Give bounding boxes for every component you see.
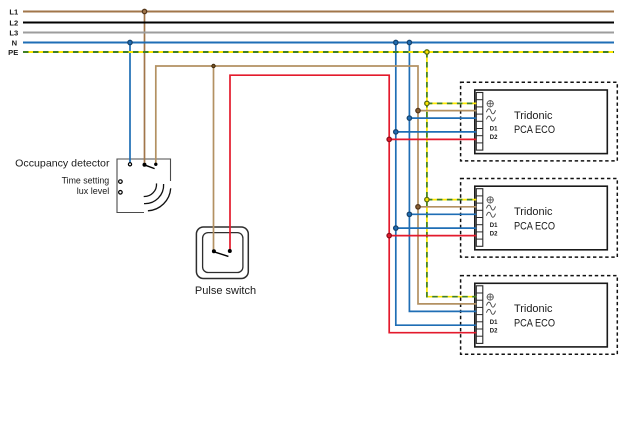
occupancy detector B1 outline: [117, 159, 171, 213]
svg-text:Occupancy detector: Occupancy detector: [15, 157, 110, 169]
occupancy detector terminal L' (switched output): [154, 163, 157, 166]
ballast U2 terminal block: [476, 189, 483, 247]
bus L2 (black): [23, 22, 614, 24]
junction D1 stub U1: [394, 130, 398, 134]
wire PE net green dashes: [427, 52, 476, 297]
wire N drop 2 (to ballast D1 terminals): [396, 43, 477, 326]
ballast U3 AC (~) symbol L terminal: [486, 302, 495, 307]
wire PE stub to ballast U2 (yellow base): [427, 199, 476, 201]
bus N (blue): [23, 42, 614, 44]
wire PE net: drop from PE bus to all ballasts (yellow base): [427, 52, 476, 297]
wire switched-L drop to pulse switch: [213, 66, 215, 251]
wire D1 stub to ballast U1: [396, 131, 477, 133]
svg-text:Tridonic: Tridonic: [514, 206, 553, 218]
svg-text:PCA ECO: PCA ECO: [514, 220, 555, 232]
occupancy detector terminal N (open circle): [128, 163, 131, 166]
ballast U2 body: [475, 186, 608, 250]
ballast U2 AC (~) symbol L terminal: [486, 205, 495, 210]
junction L stub U1: [416, 108, 420, 112]
wire PE stub to ballast U1 (yellow base): [427, 102, 476, 104]
ballast U3 body: [475, 283, 608, 347]
wire PE stub to ballast U2 green dashes: [427, 199, 476, 201]
svg-text:L1: L1: [9, 8, 19, 17]
wire N to occupancy detector: [129, 43, 131, 163]
bus PE (green/yellow): [23, 51, 614, 53]
pulse switch blade: [214, 252, 228, 257]
junction PE stub U2: [425, 197, 429, 201]
ballast U3 luminaire enclosure (dash-dot): [461, 276, 618, 355]
ballast U3 AC (~) symbol N terminal: [486, 309, 495, 314]
junction N stub U2: [407, 212, 411, 216]
occupancy detector trimmer: time setting: [119, 180, 123, 184]
svg-text:D1: D1: [490, 223, 498, 229]
junction N / detector feed: [128, 40, 132, 44]
svg-text:lux level: lux level: [77, 186, 109, 196]
pulse switch contact right: [228, 249, 232, 253]
junction PE / drop: [425, 50, 429, 54]
occupancy detector trimmer: lux level: [119, 191, 123, 195]
ballast U2 PE (earth) terminal symbol: [487, 196, 494, 203]
junction N / drop 1: [407, 40, 411, 44]
junction N stub U1: [407, 116, 411, 120]
svg-text:Pulse switch: Pulse switch: [195, 285, 256, 297]
wire pulse line from pulse switch to ballast D2 terminals: [230, 75, 476, 333]
wire D2 stub to ballast U2: [389, 235, 476, 237]
svg-text:D2: D2: [490, 135, 498, 141]
svg-text:Tridonic: Tridonic: [514, 110, 553, 122]
svg-text:PCA ECO: PCA ECO: [514, 124, 555, 136]
wire switched-L stub to ballast U1: [418, 110, 476, 112]
junction L1 / detector feed: [142, 9, 146, 13]
svg-text:PE: PE: [8, 48, 18, 57]
svg-text:D2: D2: [490, 329, 498, 335]
svg-text:D2: D2: [490, 231, 498, 237]
wire N stub to ballast U2: [409, 213, 476, 215]
ballast U3 terminal block: [476, 286, 483, 344]
ballast U1 AC (~) symbol N terminal: [486, 116, 495, 121]
svg-text:D1: D1: [490, 320, 498, 326]
junction D2 stub U2: [387, 233, 391, 237]
pulse switch contact left: [212, 249, 216, 253]
pulse switch S1 inner frame: [203, 233, 243, 273]
wire PE stub to ballast U1 green dashes: [427, 102, 476, 104]
ballast U1 PE (earth) terminal symbol: [487, 100, 494, 107]
wire switched-L from detector up and across to ballasts: [156, 66, 477, 304]
ballast U3 PE (earth) terminal symbol: [487, 293, 494, 300]
wire N stub to ballast U1: [409, 117, 476, 119]
wire N drop 1 (to ballast N terminals): [409, 43, 476, 312]
ballast U2 AC (~) symbol N terminal: [486, 212, 495, 217]
occupancy detector detection arcs: [144, 183, 171, 210]
bus L3 (grey): [23, 32, 614, 34]
svg-text:L2: L2: [9, 19, 18, 28]
wire D1 stub to ballast U2: [396, 227, 477, 229]
occupancy detector terminal L (input): [143, 163, 147, 167]
svg-text:N: N: [12, 39, 17, 48]
bus L1 (brown): [23, 11, 614, 13]
junction PE stub U1: [425, 101, 429, 105]
junction switched-L / pulse switch drop: [212, 64, 215, 67]
ballast U1 body: [475, 90, 608, 154]
wire D2 stub to ballast U1: [389, 138, 476, 140]
svg-text:Tridonic: Tridonic: [514, 303, 553, 315]
wire L1 to occupancy detector: [144, 12, 146, 164]
junction N / drop 2: [394, 40, 398, 44]
svg-text:L3: L3: [9, 29, 18, 38]
wire switched-L stub to ballast U2: [418, 206, 476, 208]
svg-text:D1: D1: [490, 127, 498, 133]
svg-text:PCA ECO: PCA ECO: [514, 318, 555, 330]
junction L stub U2: [416, 205, 420, 209]
junction D1 stub U2: [394, 226, 398, 230]
junction D2 stub U1: [387, 137, 391, 141]
svg-text:Time setting: Time setting: [62, 175, 110, 185]
ballast U1 luminaire enclosure (dash-dot): [461, 82, 618, 161]
pulse switch S1 outer frame: [196, 227, 248, 279]
ballast U2 luminaire enclosure (dash-dot): [461, 179, 618, 258]
ballast U1 terminal block: [476, 93, 483, 151]
ballast U1 AC (~) symbol L terminal: [486, 109, 495, 114]
occupancy detector internal switch blade: [145, 165, 154, 168]
